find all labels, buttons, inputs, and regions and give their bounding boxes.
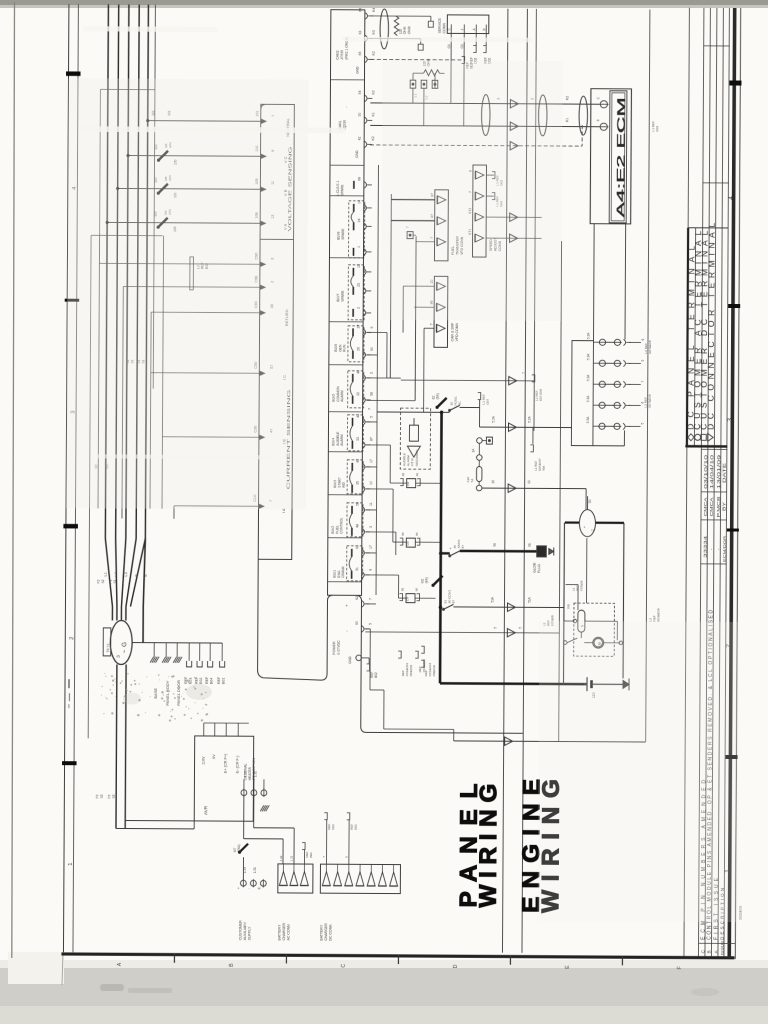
svg-text:CMCA: CMCA: [709, 497, 714, 516]
svg-text:K1: K1: [565, 118, 569, 122]
row routing vertical x390: [390, 194, 391, 378]
sender 1A fuse assembly: [477, 438, 483, 444]
CAN wire - to ECM: [370, 125, 599, 126]
battery ground arrow: [623, 680, 629, 688]
CAN wire + to ECM: [370, 103, 599, 104]
svg-text:K3: K3: [372, 30, 376, 34]
svg-text:G: G: [121, 642, 128, 647]
relay output BLV6 GEN RUN: [334, 324, 374, 362]
svg-text:0V: 0V: [212, 754, 216, 759]
svg-text:K4: K4: [372, 8, 376, 12]
svg-text:17: 17: [369, 545, 373, 549]
svg-text:D: D: [453, 964, 459, 968]
battery charger AC conn box: [278, 864, 313, 893]
CT secondary wires: [99, 262, 259, 265]
power connector 0-37VDC: [332, 596, 372, 664]
relay coil: [578, 610, 585, 632]
svg-text:2: 2: [357, 307, 361, 309]
svg-text:C02&C04: C02&C04: [422, 659, 426, 672]
svg-text:(25A): (25A): [237, 844, 241, 852]
svg-text:L3: L3: [124, 572, 128, 576]
bottom scan band: [0, 960, 768, 970]
svg-text:ALARM: ALARM: [340, 434, 344, 446]
svg-text:SPARE: SPARE: [341, 290, 345, 302]
auxiliary long vertical line C: [559, 241, 562, 741]
svg-text:58: 58: [370, 392, 374, 396]
svg-text:G2: G2: [460, 44, 464, 49]
svg-text:ECM/DGR: ECM/DGR: [723, 535, 727, 562]
voltage sensing pins: [261, 119, 266, 123]
svg-text:E+ (CR F+): E+ (CR F+): [223, 753, 227, 773]
resistor 120 ohm CAN2: [394, 16, 399, 36]
ground rake PANEL BODY: [162, 657, 166, 663]
svg-text:S1: S1: [113, 579, 117, 583]
connector CAN1 JT939: [338, 90, 375, 158]
connector terminals on CAN wires: [510, 100, 518, 108]
fuse block bottom link: [593, 445, 624, 447]
svg-text:15: 15: [357, 264, 361, 268]
battery thick feed wire: [440, 682, 587, 685]
long vertical line x152: [153, 5, 155, 389]
svg-text:S2: S2: [101, 579, 105, 583]
svg-text:B: B: [229, 963, 235, 967]
thin wire neutral link: [88, 235, 91, 738]
svg-text:14/04/10: 14/04/10: [709, 454, 714, 489]
ground bus wire: [132, 642, 222, 645]
svg-text:5.3A: 5.3A: [586, 374, 590, 381]
resistor 120 ohm main: [424, 70, 440, 76]
svg-text:GN/B: GN/B: [407, 26, 411, 34]
bracket labels below module: [398, 651, 401, 658]
svg-text:CHARGER: CHARGER: [282, 922, 286, 940]
svg-text:27: 27: [357, 324, 361, 328]
svg-text:E07&E08: E07&E08: [648, 340, 652, 353]
ref brackets alarm wires: [532, 375, 535, 382]
svg-text:REF: REF: [205, 676, 209, 684]
svg-text:13/01/09: 13/01/09: [716, 454, 721, 489]
terminal strip box: [328, 10, 365, 596]
svg-text:87: 87: [452, 600, 456, 604]
svg-text:1: 1: [68, 863, 74, 866]
svg-text:CRANK: CRANK: [341, 565, 345, 577]
svg-text:40: 40: [356, 370, 360, 374]
svg-text:51: 51: [355, 567, 359, 571]
svg-text:CONN: CONN: [442, 23, 446, 34]
svg-text:43: 43: [356, 459, 360, 463]
svg-text:1: 1: [357, 246, 361, 248]
svg-text:5.3A: 5.3A: [586, 395, 590, 402]
svg-text:62: 62: [355, 596, 359, 600]
svg-text:5.3A: 5.3A: [586, 332, 590, 339]
svg-text:5: 5: [493, 627, 497, 629]
svg-text:05&C06: 05&C06: [432, 665, 436, 676]
svg-text:D07: D07: [486, 399, 490, 405]
service connector box: [447, 15, 489, 34]
ground ref terminals: [187, 661, 192, 667]
svg-text:P.MCB: P.MCB: [716, 496, 721, 517]
svg-text:ISSUE: ISSUE: [719, 940, 724, 956]
svg-text:DATE: DATE: [722, 463, 727, 483]
svg-text:7: 7: [368, 408, 372, 410]
engine box outline: [565, 521, 624, 524]
svg-text:CHARGER: CHARGER: [324, 923, 328, 941]
svg-text:B: B: [707, 950, 712, 953]
svg-text:SPARE: SPARE: [340, 184, 344, 196]
svg-text:0-37VDC: 0-37VDC: [337, 640, 341, 655]
svg-text:D5&C06: D5&C06: [409, 664, 413, 676]
svg-text:D02: D02: [331, 824, 335, 830]
svg-text:S3: S3: [100, 794, 104, 798]
motor circuit wires: [563, 641, 567, 645]
svg-text:K1: K1: [371, 112, 375, 116]
thin wire aux vertical: [99, 89, 102, 235]
svg-text:N: N: [134, 574, 138, 577]
svg-text:4: 4: [728, 196, 735, 200]
module bottom wire 5: [370, 689, 384, 691]
relay output BLV4 AUDIBLE ALARM: [331, 414, 373, 451]
svg-text:6: 6: [641, 338, 645, 340]
fuse M2 8A: [433, 576, 443, 586]
wire to ECM fuse row1: [479, 426, 571, 429]
earth wire to ground bus: [143, 539, 145, 607]
ground drops: [153, 643, 155, 657]
panel-engine divider line 2: [522, 9, 527, 953]
engine fuse rows 5.3A: [586, 332, 645, 346]
svg-text:41: 41: [356, 414, 360, 418]
svg-text:64: 64: [358, 8, 362, 12]
svg-text:DC CONNECTOR TERMINAL: DC CONNECTOR TERMINAL: [705, 223, 716, 430]
svg-text:56: 56: [528, 543, 532, 547]
svg-text:90: 90: [370, 347, 374, 351]
svg-text:K2: K2: [372, 51, 376, 55]
key switch lower wire: [585, 538, 587, 603]
svg-text:DC CONN: DC CONN: [329, 924, 333, 941]
svg-text:42: 42: [358, 136, 362, 140]
svg-text:A: A: [117, 962, 123, 966]
generator terminal box T6Y1: [103, 628, 111, 656]
AVR wire link: [193, 821, 195, 829]
svg-text:3: 3: [369, 526, 373, 528]
svg-text:54: 54: [358, 90, 362, 94]
svg-text:6: 6: [596, 119, 600, 121]
ECM body verticals to fuse block: [592, 224, 595, 341]
svg-text:4: 4: [369, 569, 373, 571]
svg-text:S/B: S/B: [566, 604, 570, 609]
svg-text:14: 14: [357, 200, 361, 204]
svg-text:85: 85: [401, 472, 405, 476]
svg-text:SUPPLY: SUPPLY: [248, 926, 252, 940]
main feed thick vertical: [440, 412, 442, 683]
svg-text:BATTERY: BATTERY: [278, 924, 282, 941]
rake on aux E pin: [260, 805, 264, 811]
motor M: [593, 637, 604, 648]
svg-text:BATTERY: BATTERY: [320, 924, 324, 941]
svg-text:7: 7: [368, 598, 372, 600]
svg-text:B: B: [482, 28, 486, 30]
CAN2 gnd bracket: [462, 56, 465, 63]
svg-text:F1: F1: [109, 579, 113, 583]
svg-text:K2: K2: [565, 96, 569, 100]
fuse M7 25A wire: [243, 796, 245, 839]
svg-text:65: 65: [358, 51, 362, 55]
terminal studs: [410, 80, 416, 88]
relay output BLV8 SPARE: [336, 200, 371, 258]
scan white streaks: [80, 126, 345, 133]
svg-text:86: 86: [415, 588, 419, 592]
ECM wires stubs: [585, 103, 599, 105]
drawing border left double line: [63, 4, 68, 952]
svg-text:1.31: 1.31: [289, 855, 293, 861]
connector CAN2 JT939: [336, 7, 376, 73]
svg-text:33334/09: 33334/09: [739, 906, 743, 920]
svg-text:5: 5: [641, 422, 645, 424]
relay coil K2: [393, 532, 441, 547]
connector SPEED ADJUST CONN: [472, 165, 486, 257]
wire sender to key switch: [482, 487, 586, 490]
switch CCR/1: [442, 608, 444, 610]
svg-text:61: 61: [355, 545, 359, 549]
starter relay dashed box: [574, 603, 615, 656]
connector CAR & SRF VFD CONN: [434, 276, 448, 347]
svg-text:B01: B01: [222, 678, 226, 684]
relay coil K3: [398, 587, 435, 602]
legend symbol DC panel terminal: [688, 434, 694, 441]
connector terminal on return wire: [505, 737, 513, 745]
svg-text:GND: GND: [348, 656, 352, 664]
svg-text:5.3A: 5.3A: [492, 415, 496, 422]
svg-text:11: 11: [369, 502, 373, 506]
svg-text:7: 7: [522, 372, 526, 374]
svg-text:35: 35: [356, 481, 360, 485]
svg-text:E- (CR F-): E- (CR F-): [235, 755, 239, 773]
CT return wires: [151, 372, 259, 375]
border tick marks left: [66, 71, 80, 76]
sensing fuse M6: [158, 151, 168, 161]
AC bus lines L1 L2 L3 N E: [105, 4, 108, 538]
svg-text:AUXILIARY: AUXILIARY: [243, 921, 247, 940]
svg-text:3: 3: [727, 418, 734, 422]
svg-text:110V: 110V: [202, 756, 206, 765]
svg-text:REQUIRED: REQUIRED: [415, 449, 419, 466]
scan speckle patch: [134, 680, 136, 682]
svg-text:5.3A: 5.3A: [528, 415, 532, 422]
relay output BLV7 SPARE: [336, 264, 371, 320]
svg-text:(8A): (8A): [436, 393, 440, 399]
legend symbol customer AC terminal: [695, 434, 701, 440]
power minus wire crossing: [365, 632, 559, 633]
svg-text:51A: 51A: [527, 596, 531, 603]
fuse block box: [571, 341, 593, 446]
border noise dashes: [68, 679, 70, 688]
shield ovals CAN pair: [481, 95, 490, 136]
svg-text:K2: K2: [371, 136, 375, 140]
svg-text:CONTROL: CONTROL: [339, 517, 343, 533]
battery charger DC conn box: [320, 864, 400, 893]
title strip cell line top: [704, 45, 730, 47]
svg-text:03/10/10: 03/10/10: [703, 454, 708, 489]
svg-text:PLUG: PLUG: [537, 563, 541, 572]
svg-text:SPARE: SPARE: [341, 228, 345, 240]
coil feed wire: [577, 585, 579, 610]
svg-text:7: 7: [430, 323, 434, 325]
svg-text:CUSTOMER: CUSTOMER: [239, 920, 243, 940]
sensing fuse M4: [158, 218, 168, 228]
svg-text:10: 10: [369, 481, 373, 485]
audible alarm dashed box: [400, 408, 430, 469]
svg-text:PANEL DOOR: PANEL DOOR: [176, 680, 181, 706]
car srf wires: [403, 285, 434, 287]
auxiliary long vertical line B: [646, 10, 650, 742]
battery 12V: [586, 677, 588, 691]
svg-text:68: 68: [357, 177, 361, 181]
switch SAR/1 glow feed: [449, 555, 451, 557]
svg-text:708: 708: [542, 466, 546, 471]
svg-text:+: +: [583, 526, 587, 528]
svg-text:2: 2: [69, 637, 75, 640]
service conn wires: [450, 33, 452, 103]
generator G3~ symbol: [110, 620, 132, 664]
generator exciter wires: [115, 664, 118, 828]
svg-text:B04: B04: [210, 678, 214, 684]
svg-text:17: 17: [369, 459, 373, 463]
CAN2 wires: [371, 15, 431, 17]
ECM outer box: [590, 89, 631, 224]
scan shading patches: [66, 78, 308, 509]
sensing fuse M5: [158, 184, 168, 194]
svg-text:E: E: [565, 965, 571, 969]
svg-text:GND: GND: [356, 66, 360, 74]
svg-text:AC CONN: AC CONN: [287, 924, 291, 941]
svg-text:26: 26: [356, 347, 360, 351]
svg-text:1.31: 1.31: [253, 867, 257, 873]
svg-text:ALARM: ALARM: [340, 390, 344, 402]
svg-text:85: 85: [401, 587, 405, 591]
svg-text:5: 5: [370, 326, 374, 328]
key switch: [579, 510, 595, 537]
svg-text:AID: AID: [342, 482, 346, 488]
power gnd wire: [361, 657, 369, 659]
junction dots: [440, 411, 443, 414]
svg-text:D02: D02: [655, 126, 659, 132]
switch FCR/1: [448, 409, 450, 411]
fuse 62 8A: [437, 398, 447, 408]
voltage-current sensing box: [258, 104, 294, 559]
customer auxiliary supply pins: [241, 790, 247, 796]
CT ref sub-box: [190, 257, 194, 290]
AVR pin stubs: [203, 723, 205, 736]
smudge marks bottom: [100, 984, 124, 991]
svg-text:5: 5: [641, 359, 645, 361]
svg-text:32: 32: [356, 392, 360, 396]
svg-text:51A: 51A: [490, 596, 494, 603]
svg-text:F2: F2: [97, 579, 101, 583]
module inner vertical line: [376, 165, 378, 595]
auxiliary long vertical line A: [534, 9, 536, 431]
legend symbol customer DC terminal: [701, 434, 706, 440]
svg-text:58: 58: [356, 502, 360, 506]
svg-text:E07.E08: E07.E08: [539, 389, 543, 401]
relay coil K1: [390, 472, 441, 487]
revision table cell lines: [701, 448, 727, 450]
svg-text:25: 25: [357, 283, 361, 287]
ref bracket below fuse feed: [532, 427, 534, 443]
row routing vertical x415: [414, 236, 417, 400]
svg-text:5: 5: [368, 623, 372, 625]
svg-text:A4:E2 ECM: A4:E2 ECM: [615, 97, 628, 217]
aux to AC conn wire: [282, 839, 284, 864]
svg-text:86: 86: [415, 473, 419, 477]
aux link wires: [253, 796, 255, 828]
svg-text:1.32: 1.32: [279, 855, 283, 861]
svg-text:E07&E08: E07&E08: [648, 394, 652, 407]
svg-text:60: 60: [355, 621, 359, 625]
svg-text:5: 5: [370, 416, 374, 418]
relay output BLV1 ENG CRANK: [333, 545, 373, 581]
speed adjust wires crossing: [486, 216, 541, 218]
strip section dividers: [330, 79, 364, 81]
CT bottom routing: [98, 235, 100, 508]
svg-text:POWER: POWER: [332, 641, 336, 655]
svg-text:F3: F3: [107, 794, 111, 798]
speed adjust top brackets: [486, 174, 493, 176]
drawing border right thick line: [729, 8, 734, 958]
svg-text:5: 5: [518, 627, 522, 629]
svg-text:VFD CONN: VFD CONN: [455, 323, 459, 342]
svg-text:50: 50: [588, 499, 592, 503]
svg-text:56: 56: [493, 543, 497, 547]
row stub wires: [367, 331, 387, 333]
legend box: [682, 8, 729, 957]
wire ECM return bottom: [454, 741, 646, 742]
svg-text:B02: B02: [374, 672, 378, 678]
svg-text:L2: L2: [114, 572, 118, 576]
svg-text:S3: S3: [112, 794, 116, 798]
svg-text:85: 85: [401, 532, 405, 536]
ground rake BASE: [150, 657, 154, 663]
svg-text:B02: B02: [309, 852, 313, 858]
svg-text:10: 10: [491, 480, 495, 484]
svg-text:K2: K2: [371, 90, 375, 94]
svg-text:RUN: RUN: [343, 344, 347, 352]
panel-engine divider line 1: [502, 9, 507, 953]
svg-text:7: 7: [641, 380, 645, 382]
title strip cell line upper: [703, 182, 729, 184]
svg-text:86: 86: [415, 532, 419, 536]
CAN2 shield oval: [380, 9, 389, 49]
svg-text:5.3A: 5.3A: [586, 353, 590, 360]
svg-text:+: +: [237, 887, 241, 889]
svg-text:E02: E02: [199, 678, 203, 684]
svg-text:33334: 33334: [703, 535, 708, 558]
connector LCL/LS 1 SPARE: [336, 177, 372, 196]
fuel transfer wires: [391, 199, 434, 201]
svg-text:19: 19: [527, 480, 531, 484]
CAN gnd drain wire: [370, 145, 582, 146]
connector terminals on alarm wires: [509, 377, 517, 385]
svg-text:5.3A: 5.3A: [586, 416, 590, 423]
paper left edge line: [12, 2, 15, 958]
svg-text:50: 50: [358, 112, 362, 116]
bracket L1 REF D07: [478, 393, 481, 400]
svg-text:F: F: [677, 966, 683, 969]
svg-text:5: 5: [370, 372, 374, 374]
glow plug: [537, 546, 547, 557]
title strip rules: [698, 8, 703, 956]
sensing box divider: [260, 238, 293, 240]
relay output BLV2 FUEL CONTROL: [331, 502, 373, 537]
svg-text:L1: L1: [104, 572, 108, 576]
svg-text:E03&E08: E03&E08: [657, 608, 661, 621]
